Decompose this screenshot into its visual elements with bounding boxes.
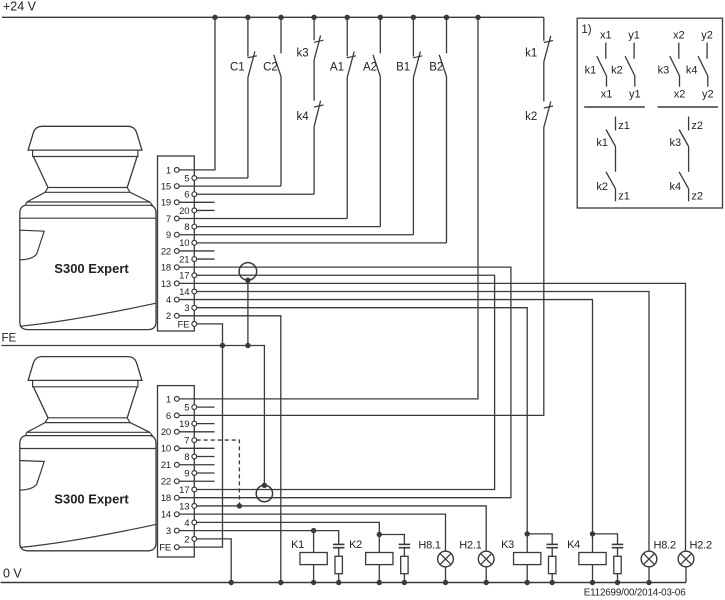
svg-text:5: 5: [184, 403, 189, 414]
EFI twisted-pair symbol at scanner1: [239, 263, 257, 281]
indicator lamp H8.2: [641, 551, 657, 567]
legend contact k4 (z2): [679, 172, 689, 189]
scanner 1 (S300 Expert) head brim band: [33, 150, 138, 156]
svg-text:k2: k2: [596, 181, 608, 193]
scanner 1 (S300 Expert) base swoosh curve: [20, 303, 156, 326]
svg-text:H2.2: H2.2: [690, 540, 713, 552]
svg-text:k3: k3: [296, 48, 308, 60]
wire scanner1 pin6 to contact k4: [197, 193, 314, 195]
scanner 1 (S300 Expert) scan window mark: [20, 230, 45, 260]
contact k1 (NC): [544, 41, 553, 43]
junction dashed wire with pin13 wire: [237, 503, 242, 508]
stub scanner2 pin8: [197, 456, 215, 458]
wire scanner1 pin9 to contact B1: [179, 234, 413, 236]
wire scanner2 pin1 to +24V: [179, 17, 478, 399]
svg-text:15: 15: [161, 182, 171, 193]
svg-text:17: 17: [179, 271, 189, 282]
legend chain z1: node z1 bottom: [615, 189, 617, 202]
scanner 1 (S300 Expert) laser scanner symbol: sensor head cap: [28, 126, 142, 150]
scanner 1 (S300 Expert) head flare skirt: [25, 192, 152, 205]
scanner 2 terminal block outline: [158, 386, 195, 557]
svg-text:K2: K2: [349, 539, 362, 551]
wire scanner1 pin13 to lamp H2.2: [179, 283, 685, 551]
stub scanner1 pin19: [179, 201, 214, 203]
contact B2 (NO): [446, 17, 448, 53]
svg-text:13: 13: [179, 501, 189, 512]
contact k3 (NC, upper of series pair): [313, 17, 315, 40]
svg-text:k3: k3: [658, 65, 670, 77]
FE rail (functional earth): [2, 346, 265, 486]
svg-text:5: 5: [184, 173, 189, 184]
stub scanner2 pin10: [179, 447, 214, 449]
svg-text:3: 3: [166, 526, 171, 537]
svg-text:14: 14: [179, 287, 189, 298]
svg-text:A2: A2: [363, 62, 377, 74]
relay coil K4: [590, 531, 595, 536]
svg-text:C1: C1: [230, 62, 245, 74]
wire k2 down to scanner2 pin6 row: [179, 128, 544, 416]
svg-text:1: 1: [166, 394, 171, 405]
wire scanner1 pin8 to contact A2: [197, 226, 381, 228]
svg-text:y2: y2: [701, 30, 713, 42]
svg-text:1: 1: [166, 165, 171, 176]
0 V return rail: [1, 582, 687, 584]
svg-text:22: 22: [161, 246, 171, 257]
scanner 1 (S300 Expert) body seam line: [20, 217, 156, 219]
legend chain z2: node z2 bottom: [688, 189, 690, 202]
svg-text:4: 4: [166, 295, 171, 306]
snubber capacitor at K2: [379, 535, 404, 545]
svg-text:z1: z1: [618, 120, 630, 132]
svg-text:B1: B1: [396, 62, 410, 74]
stub scanner2 pin22: [179, 480, 214, 482]
EFI twisted-pair symbol at scanner2: [256, 485, 272, 501]
legend contact k1-x1 blade (k1): [597, 56, 607, 76]
scanner 1 terminal block outline: [158, 156, 195, 331]
wire scanner1 pin7 to contact A1: [179, 218, 347, 220]
contact k2 (NC): [544, 106, 553, 108]
relay coil K3: [525, 531, 530, 536]
svg-text:k3: k3: [669, 137, 681, 149]
svg-text:13: 13: [161, 279, 171, 290]
svg-text:k4: k4: [686, 65, 698, 77]
stub scanner1 pin21: [197, 258, 215, 260]
wire scanner2 pin2 to 0V: [197, 539, 232, 583]
wire scanner1 pin10 to contact B2: [197, 242, 447, 244]
+24 V supply rail: [2, 16, 544, 18]
svg-text:H2.1: H2.1: [459, 540, 482, 552]
svg-text:6: 6: [184, 190, 189, 201]
svg-text:1): 1): [581, 24, 591, 36]
wire scanner1 pin1 to +24V: [179, 17, 215, 170]
contact A1 (NC): [346, 17, 348, 56]
contact C2 (NO): [280, 17, 282, 53]
svg-text:H8.2: H8.2: [654, 540, 677, 552]
svg-text:17: 17: [179, 485, 189, 496]
svg-text:4: 4: [184, 518, 189, 529]
scanner 2 (S300 Expert) scan window mark: [20, 461, 45, 491]
legend wire z1: [615, 147, 617, 172]
indicator lamp H2.2: [678, 551, 694, 567]
svg-text:K1: K1: [291, 539, 304, 551]
scanner 2 (S300 Expert) body housing: [20, 436, 156, 551]
stub scanner2 pin5: [197, 406, 215, 408]
wire k4 to scanner1 pin6: [313, 127, 315, 195]
scanner 1 (S300 Expert) body housing: [20, 205, 156, 329]
legend box note 1): [577, 18, 722, 208]
wire +24V rail corner down to k1: [543, 17, 545, 41]
wire scanner1 pin3 (OSSD) to relay K3: [197, 308, 528, 534]
svg-text:7: 7: [166, 214, 171, 225]
svg-text:18: 18: [161, 263, 171, 274]
svg-text:A1: A1: [330, 62, 344, 74]
svg-text:y2: y2: [702, 89, 714, 101]
svg-text:x1: x1: [600, 30, 612, 42]
scanner 2 (S300 Expert) head flare skirt: [25, 423, 152, 436]
svg-text:k1: k1: [525, 48, 537, 60]
stub scanner1 pin22: [179, 250, 214, 252]
svg-text:14: 14: [161, 510, 171, 521]
legend contact k2 (z1): [606, 172, 616, 189]
stub scanner2 pin9: [197, 472, 215, 474]
svg-text:FE: FE: [159, 542, 171, 553]
svg-text:22: 22: [161, 477, 171, 488]
svg-text:FE: FE: [2, 333, 17, 345]
svg-text:8: 8: [184, 222, 189, 233]
svg-text:x1: x1: [601, 89, 613, 101]
scanner 2 (S300 Expert) head ring: [45, 418, 130, 423]
svg-text:H8.1: H8.1: [418, 540, 441, 552]
svg-text:k2: k2: [525, 111, 537, 123]
svg-text:k2: k2: [611, 65, 623, 77]
snubber resistor at K1: [338, 548, 340, 557]
legend chain z1: node z1 top: [615, 117, 617, 131]
wire k1 to k2: [543, 62, 545, 102]
snubber resistor at K2: [403, 548, 405, 557]
svg-text:C2: C2: [263, 62, 278, 74]
scanner 2 (S300 Expert) base swoosh curve: [20, 524, 156, 547]
stub scanner2 pin20: [179, 431, 214, 433]
contact B1 (NC): [412, 17, 414, 56]
wire EFI pair scanner1 to FE rail: [247, 280, 249, 345]
indicator lamp H8.1: [438, 551, 454, 567]
svg-text:y1: y1: [628, 30, 640, 42]
svg-text:10: 10: [161, 444, 171, 455]
svg-text:21: 21: [179, 254, 189, 265]
legend contact k3-x2 blade (k3): [670, 56, 680, 76]
wire scanner1 pin4 (OSSD) to relay K4: [179, 300, 592, 534]
svg-text:k4: k4: [669, 181, 681, 193]
wire scanner1 pin14 to lamp H8.2: [197, 291, 649, 551]
svg-text:2: 2: [166, 311, 171, 322]
svg-text:20: 20: [161, 427, 171, 438]
scanner 2 (S300 Expert) body seam line: [20, 448, 156, 450]
svg-text:S300 Expert: S300 Expert: [54, 491, 129, 506]
svg-text:E112699/00/2014-03-06: E112699/00/2014-03-06: [584, 587, 687, 598]
svg-text:21: 21: [161, 460, 171, 471]
legend wire z2: [688, 147, 690, 172]
svg-text:k4: k4: [296, 111, 309, 123]
svg-text:B2: B2: [429, 62, 443, 74]
svg-text:k1: k1: [585, 65, 597, 77]
svg-text:k1: k1: [596, 137, 608, 149]
svg-text:20: 20: [179, 206, 189, 217]
svg-text:z2: z2: [691, 120, 703, 132]
wire scanner2 pin4 (OSSD) to relay K2: [197, 522, 380, 534]
svg-text:z2: z2: [691, 191, 703, 203]
legend contact k4-y2 blade (k4): [698, 56, 708, 76]
svg-text:8: 8: [184, 452, 189, 463]
wire scanner1 pin15 to contact C2: [179, 185, 281, 187]
wire scanner2 pin14 to lamp H8.1: [179, 514, 445, 551]
snubber capacitor at K4: [593, 534, 618, 545]
snubber resistor at K3: [551, 548, 553, 557]
svg-text:FE: FE: [178, 319, 190, 330]
svg-text:y1: y1: [629, 89, 641, 101]
wire scanner2 pin3 (OSSD) to relay K1: [179, 530, 313, 532]
contact A2 (NO): [379, 17, 381, 53]
node dots on +24 V rail: [212, 15, 217, 20]
stub scanner1 pin20: [197, 209, 215, 211]
legend contact k2-y1 blade (k2): [625, 56, 635, 76]
scanner 1 (S300 Expert) head funnel: [33, 157, 137, 188]
legend divider lines: [584, 106, 645, 108]
wire scanner2 pin13 to lamp H2.1: [197, 506, 487, 551]
EFI wire scanner1 pin18 to scanner2 pin18: [179, 267, 511, 498]
svg-text:7: 7: [184, 435, 189, 446]
svg-text:19: 19: [179, 419, 189, 430]
svg-text:3: 3: [184, 303, 189, 314]
scanner 2 (S300 Expert) head funnel: [33, 387, 137, 418]
scanner 2 (S300 Expert) laser scanner symbol: sensor head cap: [28, 357, 142, 381]
dashed wire scanner2 pin7 to pin13 row: [197, 440, 240, 506]
svg-text:2: 2: [184, 534, 189, 545]
svg-text:18: 18: [161, 493, 171, 504]
svg-text:+24 V: +24 V: [3, 0, 37, 14]
wire scanner1 pin5 to contact C1: [197, 177, 248, 179]
svg-text:S300 Expert: S300 Expert: [54, 261, 129, 276]
wire scanner1 FE pin / scanner2 FE pin to FE rail: [179, 324, 222, 547]
EFI wire scanner1 pin17 to scanner2 pin17: [197, 275, 495, 489]
svg-text:0 V: 0 V: [3, 567, 22, 581]
wire scanner1 pin2 to 0V: [179, 316, 281, 583]
relay coil K2: [377, 532, 382, 537]
snubber capacitor at K1: [314, 531, 339, 545]
legend contact k3 (z2): [679, 130, 689, 147]
wire k3 to k4: [313, 60, 315, 101]
legend chain z2: node z2 top: [688, 117, 690, 131]
relay coil K1: [311, 528, 316, 533]
svg-text:10: 10: [179, 238, 189, 249]
snubber capacitor at K3: [527, 534, 552, 545]
svg-text:x2: x2: [674, 89, 686, 101]
scanner 2 (S300 Expert) head brim band: [33, 380, 138, 386]
svg-text:19: 19: [161, 198, 171, 209]
stub scanner2 pin21: [179, 464, 214, 466]
legend contact k1 (z1): [606, 130, 616, 147]
stub scanner2 pin19: [197, 423, 215, 425]
junction FE pins with FE rail: [220, 343, 225, 348]
snubber resistor at K4: [617, 548, 619, 557]
indicator lamp H2.1: [478, 551, 494, 567]
contact k4 (NC, lower of series pair): [314, 105, 323, 107]
contact C1 (NC, test output pair): [247, 17, 249, 56]
svg-text:K3: K3: [501, 539, 514, 551]
svg-text:6: 6: [166, 411, 171, 422]
svg-text:K4: K4: [567, 539, 580, 551]
svg-text:x2: x2: [673, 30, 685, 42]
svg-text:9: 9: [166, 230, 171, 241]
scanner 1 (S300 Expert) head ring: [45, 188, 130, 193]
svg-text:9: 9: [184, 468, 189, 479]
svg-text:z1: z1: [618, 191, 630, 203]
